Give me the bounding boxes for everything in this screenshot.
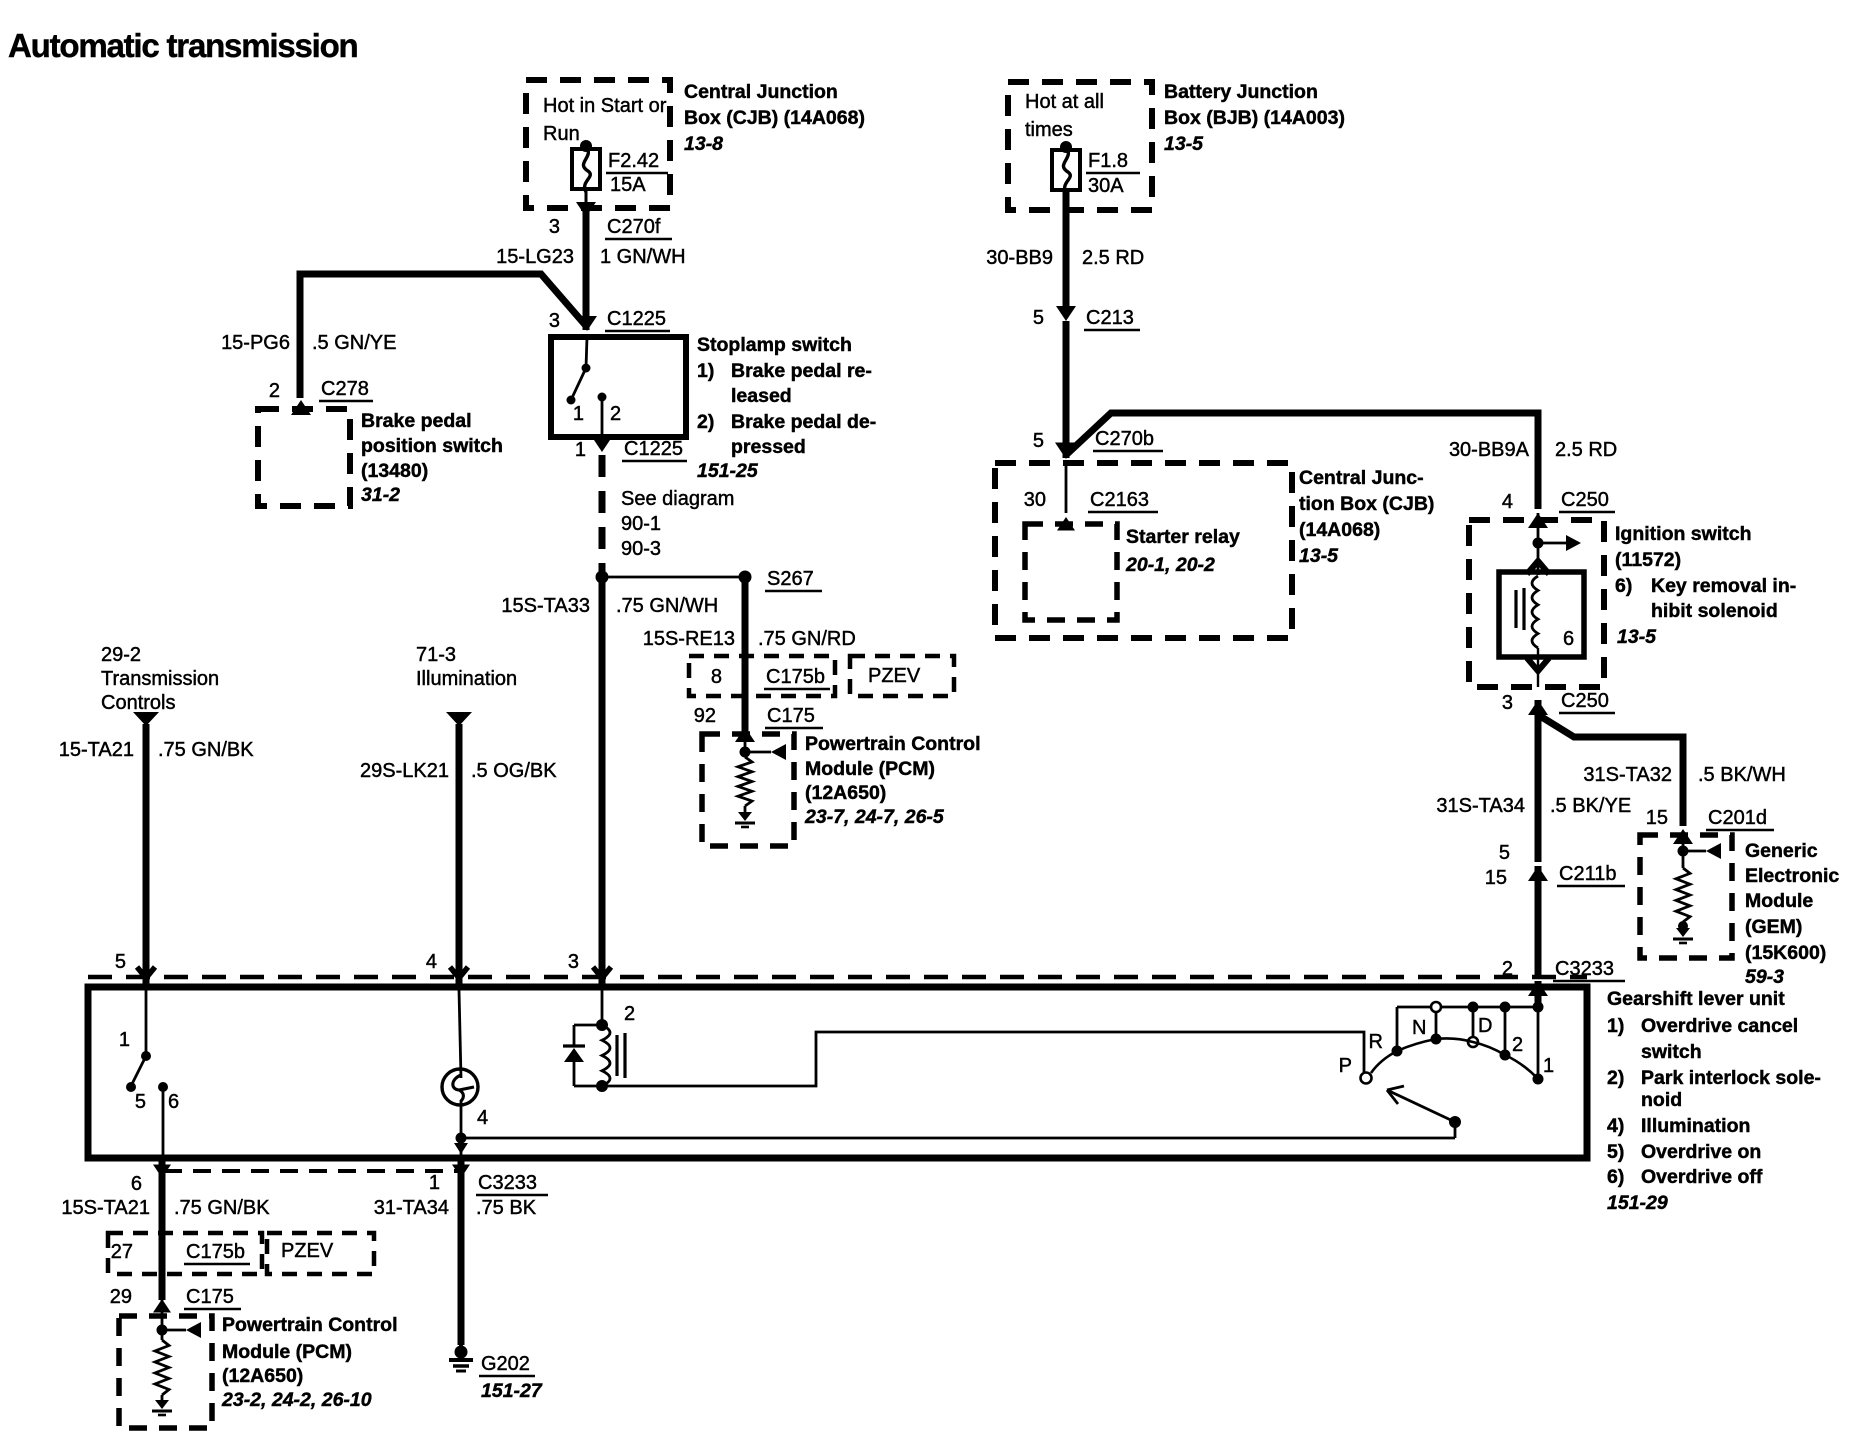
svg-text:23-2, 24-2, 26-10: 23-2, 24-2, 26-10 bbox=[221, 1389, 372, 1411]
svg-text:Gearshift lever unit: Gearshift lever unit bbox=[1607, 988, 1785, 1010]
svg-text:G202: G202 bbox=[481, 1353, 530, 1375]
svg-text:5: 5 bbox=[135, 1091, 146, 1113]
svg-text:noid: noid bbox=[1641, 1089, 1682, 1111]
svg-text:Central Junction: Central Junction bbox=[684, 81, 838, 103]
svg-text:R: R bbox=[1369, 1031, 1383, 1053]
svg-text:15S-TA21: 15S-TA21 bbox=[61, 1197, 150, 1219]
svg-text:Box (CJB) (14A068): Box (CJB) (14A068) bbox=[684, 107, 865, 129]
svg-text:29-2: 29-2 bbox=[101, 644, 141, 666]
svg-text:31S-TA34: 31S-TA34 bbox=[1436, 795, 1525, 817]
svg-text:.5 BK/YE: .5 BK/YE bbox=[1550, 795, 1631, 817]
svg-text:C270b: C270b bbox=[1095, 428, 1154, 450]
svg-text:30-BB9A: 30-BB9A bbox=[1449, 439, 1530, 461]
svg-text:tion Box (CJB): tion Box (CJB) bbox=[1299, 493, 1434, 515]
svg-text:4): 4) bbox=[1607, 1115, 1624, 1137]
svg-text:13-5: 13-5 bbox=[1617, 626, 1657, 648]
svg-text:29S-LK21: 29S-LK21 bbox=[360, 760, 449, 782]
svg-text:Transmission: Transmission bbox=[101, 668, 219, 690]
svg-text:.75 GN/BK: .75 GN/BK bbox=[174, 1197, 270, 1219]
svg-text:C2163: C2163 bbox=[1090, 489, 1149, 511]
svg-text:151-27: 151-27 bbox=[481, 1380, 543, 1402]
svg-text:Key removal in-: Key removal in- bbox=[1651, 575, 1796, 597]
svg-text:15A: 15A bbox=[610, 174, 646, 196]
svg-text:1: 1 bbox=[119, 1029, 130, 1051]
svg-text:Module: Module bbox=[1745, 890, 1813, 912]
svg-text:151-25: 151-25 bbox=[697, 460, 759, 482]
svg-text:31S-TA32: 31S-TA32 bbox=[1583, 764, 1672, 786]
svg-text:Brake pedal de-: Brake pedal de- bbox=[731, 411, 876, 433]
svg-text:hibit solenoid: hibit solenoid bbox=[1651, 600, 1778, 622]
svg-text:15S-TA33: 15S-TA33 bbox=[501, 595, 590, 617]
svg-text:Overdrive on: Overdrive on bbox=[1641, 1141, 1761, 1163]
svg-text:71-3: 71-3 bbox=[416, 644, 456, 666]
svg-text:N: N bbox=[1412, 1017, 1426, 1039]
svg-text:C1225: C1225 bbox=[607, 308, 666, 330]
svg-text:5: 5 bbox=[1033, 430, 1044, 452]
svg-text:Module (PCM): Module (PCM) bbox=[805, 758, 935, 780]
svg-text:Brake pedal: Brake pedal bbox=[361, 410, 472, 432]
svg-text:P: P bbox=[1339, 1055, 1352, 1077]
svg-text:20-1, 20-2: 20-1, 20-2 bbox=[1125, 554, 1215, 576]
svg-text:C278: C278 bbox=[321, 378, 369, 400]
svg-text:Battery Junction: Battery Junction bbox=[1164, 81, 1318, 103]
svg-text:Hot at all: Hot at all bbox=[1025, 91, 1104, 113]
svg-text:C211b: C211b bbox=[1559, 863, 1616, 885]
svg-text:S267: S267 bbox=[767, 568, 814, 590]
svg-text:switch: switch bbox=[1641, 1041, 1702, 1063]
svg-text:.75 GN/RD: .75 GN/RD bbox=[758, 628, 856, 650]
svg-text:1): 1) bbox=[1607, 1015, 1624, 1037]
svg-text:C213: C213 bbox=[1086, 307, 1134, 329]
svg-text:Central Junc-: Central Junc- bbox=[1299, 467, 1424, 489]
svg-text:C201d: C201d bbox=[1708, 807, 1767, 829]
svg-text:5: 5 bbox=[115, 951, 126, 973]
svg-text:Illumination: Illumination bbox=[1641, 1115, 1750, 1137]
svg-text:15: 15 bbox=[1646, 807, 1668, 829]
svg-text:6: 6 bbox=[1563, 628, 1574, 650]
svg-text:3: 3 bbox=[568, 951, 579, 973]
svg-text:C270f: C270f bbox=[607, 216, 661, 238]
svg-text:2.5 RD: 2.5 RD bbox=[1555, 439, 1617, 461]
svg-text:3: 3 bbox=[549, 216, 560, 238]
svg-text:92: 92 bbox=[694, 705, 716, 727]
svg-text:4: 4 bbox=[426, 951, 437, 973]
svg-text:C3233: C3233 bbox=[478, 1172, 537, 1194]
svg-text:6: 6 bbox=[131, 1173, 142, 1195]
svg-text:15-PG6: 15-PG6 bbox=[221, 332, 290, 354]
svg-text:C175b: C175b bbox=[186, 1241, 245, 1263]
svg-text:4: 4 bbox=[1502, 491, 1513, 513]
svg-text:(14A068): (14A068) bbox=[1299, 519, 1380, 541]
svg-text:2.5 RD: 2.5 RD bbox=[1082, 247, 1144, 269]
svg-text:Hot in Start or: Hot in Start or bbox=[543, 95, 667, 117]
svg-text:5): 5) bbox=[1607, 1141, 1624, 1163]
svg-text:6: 6 bbox=[168, 1091, 179, 1113]
svg-text:2): 2) bbox=[697, 411, 714, 433]
svg-text:(12A650): (12A650) bbox=[805, 782, 886, 804]
svg-text:PZEV: PZEV bbox=[281, 1240, 334, 1262]
svg-text:Powertrain Control: Powertrain Control bbox=[805, 733, 981, 755]
svg-text:C250: C250 bbox=[1561, 489, 1609, 511]
svg-text:90-1: 90-1 bbox=[621, 513, 661, 535]
svg-text:8: 8 bbox=[711, 666, 722, 688]
svg-text:90-3: 90-3 bbox=[621, 538, 661, 560]
svg-text:Controls: Controls bbox=[101, 692, 175, 714]
svg-text:1: 1 bbox=[1543, 1055, 1554, 1077]
svg-text:31-TA34: 31-TA34 bbox=[374, 1197, 449, 1219]
svg-text:C175: C175 bbox=[186, 1286, 234, 1308]
svg-text:C250: C250 bbox=[1561, 690, 1609, 712]
svg-text:1: 1 bbox=[573, 403, 584, 425]
svg-text:C175: C175 bbox=[767, 705, 815, 727]
svg-text:.75 GN/WH: .75 GN/WH bbox=[616, 595, 718, 617]
svg-text:59-3: 59-3 bbox=[1745, 966, 1784, 988]
svg-text:30: 30 bbox=[1024, 489, 1046, 511]
svg-text:D: D bbox=[1478, 1015, 1492, 1037]
svg-text:2: 2 bbox=[624, 1003, 635, 1025]
svg-text:2: 2 bbox=[269, 380, 280, 402]
svg-text:leased: leased bbox=[731, 385, 792, 407]
svg-text:Generic: Generic bbox=[1745, 840, 1818, 862]
svg-text:31-2: 31-2 bbox=[361, 484, 400, 506]
svg-text:(12A650): (12A650) bbox=[222, 1365, 303, 1387]
svg-text:15S-RE13: 15S-RE13 bbox=[643, 628, 735, 650]
svg-text:.5 OG/BK: .5 OG/BK bbox=[471, 760, 557, 782]
svg-text:.75 BK: .75 BK bbox=[476, 1197, 537, 1219]
svg-text:Box (BJB) (14A003): Box (BJB) (14A003) bbox=[1164, 107, 1345, 129]
svg-text:Illumination: Illumination bbox=[416, 668, 517, 690]
svg-text:Overdrive cancel: Overdrive cancel bbox=[1641, 1015, 1798, 1037]
svg-text:2): 2) bbox=[1607, 1067, 1624, 1089]
svg-text:3: 3 bbox=[549, 310, 560, 332]
svg-text:1: 1 bbox=[429, 1172, 440, 1194]
svg-text:Electronic: Electronic bbox=[1745, 865, 1839, 887]
svg-text:2: 2 bbox=[610, 403, 621, 425]
svg-text:Ignition switch: Ignition switch bbox=[1615, 523, 1752, 545]
svg-text:3: 3 bbox=[1502, 692, 1513, 714]
svg-text:13-5: 13-5 bbox=[1299, 545, 1339, 567]
svg-text:times: times bbox=[1025, 119, 1073, 141]
svg-text:Powertrain Control: Powertrain Control bbox=[222, 1314, 398, 1336]
svg-text:Starter relay: Starter relay bbox=[1126, 526, 1240, 548]
svg-text:1): 1) bbox=[697, 360, 714, 382]
svg-text:23-7, 24-7, 26-5: 23-7, 24-7, 26-5 bbox=[804, 806, 945, 828]
svg-text:(13480): (13480) bbox=[361, 460, 428, 482]
svg-text:15-LG23: 15-LG23 bbox=[496, 246, 574, 268]
svg-text:Run: Run bbox=[543, 123, 580, 145]
svg-text:Stoplamp switch: Stoplamp switch bbox=[697, 334, 852, 356]
svg-text:.5 BK/WH: .5 BK/WH bbox=[1698, 764, 1786, 786]
svg-text:(GEM): (GEM) bbox=[1745, 916, 1802, 938]
svg-text:6): 6) bbox=[1615, 575, 1632, 597]
svg-text:151-29: 151-29 bbox=[1607, 1192, 1668, 1214]
svg-text:Overdrive off: Overdrive off bbox=[1641, 1166, 1763, 1188]
svg-text:30A: 30A bbox=[1088, 175, 1124, 197]
svg-text:.75 GN/BK: .75 GN/BK bbox=[158, 739, 254, 761]
svg-text:Park interlock sole-: Park interlock sole- bbox=[1641, 1067, 1821, 1089]
svg-text:Brake pedal re-: Brake pedal re- bbox=[731, 360, 872, 382]
svg-text:(11572): (11572) bbox=[1615, 549, 1681, 571]
svg-text:PZEV: PZEV bbox=[868, 665, 921, 687]
svg-text:15-TA21: 15-TA21 bbox=[59, 739, 134, 761]
svg-text:C1225: C1225 bbox=[624, 438, 683, 460]
svg-text:27: 27 bbox=[111, 1241, 133, 1263]
svg-text:1 GN/WH: 1 GN/WH bbox=[600, 246, 686, 268]
svg-text:30-BB9: 30-BB9 bbox=[986, 247, 1053, 269]
svg-text:pressed: pressed bbox=[731, 436, 806, 458]
svg-text:1: 1 bbox=[575, 439, 586, 461]
svg-text:13-8: 13-8 bbox=[684, 133, 723, 155]
svg-text:C175b: C175b bbox=[766, 666, 825, 688]
svg-text:4: 4 bbox=[477, 1107, 488, 1129]
svg-text:Automatic transmission: Automatic transmission bbox=[8, 27, 358, 64]
svg-text:13-5: 13-5 bbox=[1164, 133, 1204, 155]
svg-text:Module (PCM): Module (PCM) bbox=[222, 1341, 352, 1363]
svg-text:5: 5 bbox=[1499, 842, 1510, 864]
svg-text:F1.8: F1.8 bbox=[1088, 150, 1128, 172]
svg-text:.5 GN/YE: .5 GN/YE bbox=[312, 332, 396, 354]
svg-text:F2.42: F2.42 bbox=[608, 150, 659, 172]
svg-text:2: 2 bbox=[1512, 1034, 1523, 1056]
svg-text:(15K600): (15K600) bbox=[1745, 942, 1826, 964]
svg-text:See diagram: See diagram bbox=[621, 488, 734, 510]
svg-text:15: 15 bbox=[1485, 867, 1507, 889]
svg-text:29: 29 bbox=[110, 1286, 132, 1308]
svg-text:6): 6) bbox=[1607, 1166, 1624, 1188]
svg-text:5: 5 bbox=[1033, 307, 1044, 329]
svg-text:position switch: position switch bbox=[361, 435, 503, 457]
